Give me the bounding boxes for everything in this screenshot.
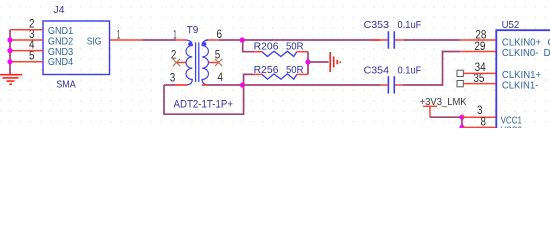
T9 primary polarity dot (188, 42, 191, 45)
R256 left pin (254, 73, 263, 75)
svg-text:C354: C354 (364, 65, 390, 77)
wire C354 jog to U52 pin 29 (403, 52, 460, 86)
svg-text:6: 6 (217, 27, 223, 41)
svg-text:C353: C353 (364, 19, 390, 31)
T9 pin 2 (177, 62, 187, 64)
svg-text:4: 4 (218, 70, 224, 84)
wire vcc down (461, 117, 463, 127)
U52 pin 35 (464, 83, 497, 85)
T9 pin 5 (208, 62, 219, 64)
wire T9 pin3 down to box (164, 84, 176, 86)
C354 left pin (381, 84, 388, 86)
wire R206 to R256 vertical (307, 52, 309, 75)
power port +3V3_LMK bar (423, 106, 437, 117)
T9 core (195, 43, 197, 83)
no-ERC cross pin 5 (215, 59, 222, 66)
C354 right pin (395, 84, 403, 86)
junction dot termination (305, 59, 310, 64)
T9 pin 3 (176, 84, 187, 86)
svg-text:T9: T9 (187, 25, 199, 36)
svg-text:SIG: SIG (87, 36, 102, 47)
U52 pin 28 (460, 39, 497, 41)
svg-text:GND4: GND4 (48, 57, 74, 68)
svg-text:CLKIN1+: CLKIN1+ (502, 70, 541, 81)
wire C353 to U52 pin 28 (404, 39, 460, 41)
J4 pin 1 SIG (110, 39, 143, 41)
T9 pin 6 (206, 39, 219, 41)
T9 secondary winding (202, 40, 208, 85)
wire junction to ground (308, 61, 329, 63)
C353 plates (387, 31, 389, 48)
connector J4 body (43, 21, 110, 75)
svg-text:CLKIN0-: CLKIN0- (502, 48, 539, 59)
J4 pin 3 (10, 39, 43, 41)
wire junction down to R206 (243, 40, 254, 52)
T9 pin 1 (176, 39, 186, 41)
svg-text:GND1: GND1 (48, 26, 74, 37)
wire box corner up to R256 (244, 74, 254, 85)
T9 pin 4 stub overlay (202, 84, 208, 86)
C354 plates (387, 76, 389, 93)
IC U52 body (496, 30, 550, 131)
wire +3V3 to VCC1 (430, 116, 463, 118)
svg-text:ADT2-1T-1P+: ADT2-1T-1P+ (174, 98, 234, 110)
J4 pin 4 (10, 50, 43, 52)
J4 pin 2 (10, 29, 43, 31)
svg-text:R206: R206 (254, 41, 279, 53)
ground symbol right (rotated) (330, 52, 340, 72)
wire T9 pin4 to junction (208, 84, 243, 86)
svg-text:GND2: GND2 (48, 36, 74, 47)
svg-text:CLKIN1-: CLKIN1- (502, 81, 539, 92)
C353 left pin (371, 39, 388, 41)
U52 pin 3 (463, 116, 497, 118)
T9 secondary polarity dot (203, 42, 206, 45)
junction dot top net (240, 37, 245, 42)
svg-text:0.1uF: 0.1uF (398, 65, 422, 77)
J4 pin 5 (10, 61, 43, 63)
junction dot pin3 (7, 37, 12, 42)
U52 pin 8 (463, 126, 497, 128)
T9 pin 3 stub overlay (176, 84, 187, 86)
svg-text:GND3: GND3 (48, 47, 74, 58)
wire gnd bus vertical (9, 30, 11, 74)
svg-text:VCC2: VCC2 (501, 125, 523, 128)
junction dot vcc (459, 115, 464, 120)
T9 primary winding (186, 40, 192, 85)
R206 right pin (297, 51, 308, 53)
T9 pin 4 (202, 84, 208, 86)
junction dot pin5 (7, 59, 12, 64)
svg-text:SMA: SMA (56, 78, 75, 90)
junction dot pin4 (7, 48, 12, 53)
svg-text:8: 8 (481, 114, 487, 128)
wire T9 pin6 to C353 (219, 39, 381, 41)
U52 pin 29 (460, 51, 497, 53)
junction dot vcc2 (459, 125, 464, 130)
svg-text:3: 3 (170, 70, 176, 84)
no-connect square pin 34 (457, 70, 463, 76)
R256 body (262, 74, 297, 79)
R256 right pin (297, 73, 308, 75)
C353 right pin (395, 39, 404, 41)
ground symbol left (0, 75, 22, 85)
U52 pin 34 (464, 72, 497, 74)
svg-text:0.1uF: 0.1uF (398, 19, 422, 31)
wire bottom net to C354 (242, 84, 381, 86)
R206 left pin (254, 51, 263, 53)
wire SIG to T9 (143, 39, 177, 41)
R206 body (262, 51, 297, 56)
svg-text:29: 29 (474, 39, 485, 53)
svg-text:D: D (544, 48, 550, 59)
svg-text:50R: 50R (286, 41, 304, 53)
junction dot bottom net (240, 82, 245, 87)
no-connect square pin 35 (457, 81, 463, 87)
T9 value box ADT2-1T-1P+ (164, 85, 244, 114)
svg-text:J4: J4 (54, 5, 65, 16)
no-ERC cross pin 2 (173, 59, 180, 66)
